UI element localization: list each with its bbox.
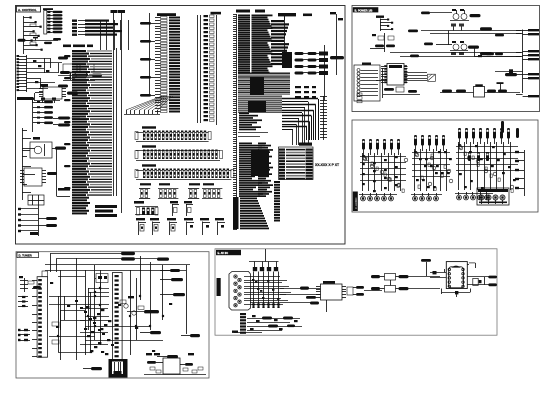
panel E title block — [216, 250, 241, 255]
IF amp block U12 — [144, 353, 206, 375]
net stub column bottom — [274, 181, 280, 222]
display connector J5 — [109, 273, 128, 378]
wire rail mid — [390, 53, 521, 58]
component cluster mid tuner — [80, 306, 111, 355]
left bias parts — [19, 276, 41, 292]
controller U7 — [376, 64, 427, 86]
wire h main — [18, 37, 62, 44]
data bus stair wires — [282, 99, 319, 146]
comparator U4 block — [20, 148, 70, 197]
panel B title block — [353, 7, 379, 12]
net name row — [63, 45, 93, 48]
output jack block — [477, 188, 509, 205]
op-amp U2 block — [35, 84, 79, 101]
crystal filter U16 — [430, 262, 497, 297]
audio filter bank C20-C24 — [411, 135, 453, 201]
transistor pair Q4 Q5 — [424, 41, 479, 55]
panel D title block — [17, 252, 39, 257]
svg-text:XX-XXX X P XT: XX-XXX X P XT — [315, 163, 340, 167]
capacitor groups CG2 — [134, 201, 193, 216]
net label top — [278, 13, 312, 20]
panel D sheet border — [16, 252, 209, 378]
resistor array RN2 — [135, 145, 223, 160]
panel A sheet border — [16, 6, 346, 245]
capacitor groups CG1 — [139, 183, 222, 198]
power tree net V1 — [24, 16, 43, 54]
transistor pair Q2 Q3 — [421, 9, 481, 31]
resistor group RG2 — [17, 97, 80, 132]
wire long vertical right of U6 — [284, 16, 286, 60]
connector pads right edge — [523, 29, 539, 97]
resistor small rows RN6 — [295, 86, 316, 98]
resistor array RN3 — [135, 164, 234, 179]
bus matrix top rows — [72, 20, 129, 51]
connector J1 — [204, 12, 222, 125]
RF output parts — [473, 276, 497, 287]
svg-text:A. CONTROL: A. CONTROL — [18, 8, 37, 12]
CPU U5 — [140, 13, 180, 112]
discriminator parts mid — [52, 296, 144, 346]
video amp U13 — [280, 281, 346, 300]
resistor ladder RA1 — [43, 8, 63, 34]
wire tree left-mid — [22, 128, 35, 200]
wire right vertical — [325, 12, 345, 100]
input tree net — [376, 16, 393, 32]
wire rails mid — [150, 13, 201, 123]
regulator U8 — [440, 82, 520, 97]
address bus AB1 with net labels — [64, 10, 125, 214]
wire mesh tuner — [45, 256, 190, 355]
grid termination feet — [250, 300, 327, 312]
bus terminator block — [95, 205, 117, 217]
wire columns mid tuner — [58, 258, 86, 360]
supply labels top — [50, 252, 135, 272]
audio in cluster — [232, 313, 302, 334]
svg-text:C. AUDIO: C. AUDIO — [354, 198, 358, 209]
switch ICs U14 U15 — [371, 259, 440, 292]
regulator U3 block — [22, 137, 66, 158]
circuit box top mid — [95, 274, 108, 291]
resistor network rows RN5 — [295, 52, 329, 76]
left AGC parts — [18, 329, 30, 341]
svg-text:D. TUNER: D. TUNER — [19, 254, 32, 258]
net label column NL1 — [271, 20, 292, 68]
audio filter bank C10-C15 — [359, 139, 408, 201]
driver IC U10 — [32, 271, 48, 358]
jumper table block — [28, 195, 44, 205]
capacitor row C40 — [468, 152, 489, 161]
svg-text:B. POWER 1/B: B. POWER 1/B — [355, 8, 373, 12]
right edge parts — [501, 121, 525, 196]
capacitor groups CG3 — [136, 218, 225, 235]
left mid parts — [18, 296, 28, 307]
junction tree net V2 — [17, 55, 71, 92]
net labels right column — [83, 258, 200, 371]
output labels right — [480, 27, 523, 94]
AV connector J6 — [229, 272, 251, 311]
svg-text:E. AV I/O: E. AV I/O — [218, 251, 229, 255]
panel B sheet border — [352, 6, 540, 112]
capacitor row CB1 — [30, 98, 56, 104]
video amp parts — [347, 286, 382, 296]
main processor U6 pin field — [233, 10, 290, 231]
wire fan under U5 — [124, 96, 173, 115]
panel C sheet border — [352, 120, 538, 212]
wire rail top — [408, 30, 521, 46]
bias parts under U7 — [357, 87, 420, 103]
AV wire grid — [244, 272, 291, 309]
audio output bank C30-C38 — [455, 128, 518, 200]
panel C vertical title — [353, 192, 358, 212]
panel A title block — [17, 6, 41, 12]
bus entry ticks — [320, 96, 327, 140]
panel E vertical label — [217, 278, 221, 296]
termination resistor squares — [249, 249, 279, 271]
wire drop from Q4 — [475, 47, 523, 73]
connector J2 block — [279, 143, 314, 180]
panel E sheet border — [215, 249, 497, 335]
resistor array RN1 — [135, 126, 211, 141]
crystal Y1 — [428, 74, 436, 81]
transistor Q1 block — [58, 64, 102, 81]
reset circuit block — [18, 205, 57, 236]
filter circuit F1 — [370, 33, 395, 52]
connector J3 block — [354, 63, 383, 102]
